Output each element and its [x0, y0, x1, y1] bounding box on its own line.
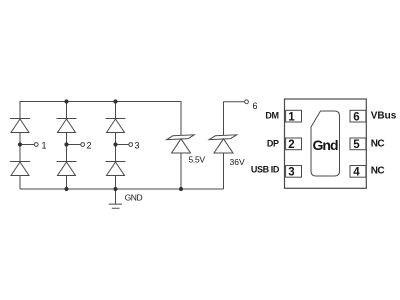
svg-text:VBus: VBus: [371, 111, 397, 122]
svg-text:DM: DM: [265, 110, 278, 120]
svg-text:6: 6: [353, 111, 359, 123]
svg-text:2: 2: [288, 139, 294, 151]
svg-text:6: 6: [253, 101, 258, 111]
svg-text:NC: NC: [371, 139, 385, 150]
svg-text:5.5V: 5.5V: [189, 155, 206, 165]
svg-text:GND: GND: [125, 193, 143, 203]
svg-text:1: 1: [288, 111, 295, 123]
svg-text:DP: DP: [267, 139, 279, 149]
svg-text:1: 1: [42, 140, 47, 150]
svg-text:2: 2: [87, 140, 92, 150]
svg-text:Gnd: Gnd: [313, 137, 338, 153]
svg-text:NC: NC: [371, 165, 385, 176]
svg-text:3: 3: [288, 167, 294, 179]
svg-text:5: 5: [353, 139, 360, 151]
svg-text:4: 4: [353, 167, 360, 179]
svg-text:3: 3: [135, 140, 140, 150]
svg-text:USB ID: USB ID: [251, 165, 280, 175]
svg-text:36V: 36V: [230, 157, 245, 167]
